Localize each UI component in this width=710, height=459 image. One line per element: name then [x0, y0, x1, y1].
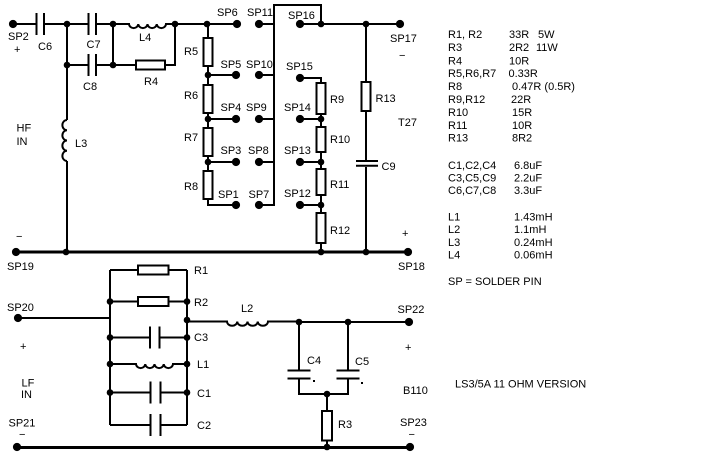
junction C1 right — [184, 389, 191, 396]
svg-text:R8: R8 — [184, 181, 198, 193]
svg-text:L3: L3 — [448, 237, 460, 249]
svg-text:C5: C5 — [355, 356, 369, 368]
svg-text:+: + — [405, 342, 411, 354]
svg-text:IN: IN — [21, 389, 32, 401]
junction C5 top — [345, 319, 352, 326]
terminal SP3 — [232, 158, 240, 166]
wire R2 row left — [110, 301, 138, 303]
label C4 period — [313, 380, 315, 382]
wire tap SP3 — [208, 161, 236, 163]
svg-text:C7: C7 — [87, 39, 101, 51]
svg-text:T27: T27 — [398, 117, 417, 129]
svg-text:SP2: SP2 — [8, 31, 29, 43]
wire SP20 to LF network — [18, 317, 110, 319]
junction C3 left — [107, 334, 114, 341]
svg-text:C6,C7,C8: C6,C7,C8 — [448, 185, 496, 197]
svg-text:LF: LF — [22, 378, 35, 390]
svg-text:5W: 5W — [538, 29, 555, 41]
svg-text:2.2uF: 2.2uF — [514, 173, 542, 185]
junction R9/R10 — [318, 116, 325, 123]
svg-text:R11: R11 — [330, 179, 349, 191]
resistor R9 — [317, 83, 326, 114]
svg-text:SP18: SP18 — [398, 261, 425, 273]
svg-text:SP11: SP11 — [247, 7, 273, 19]
svg-text:R10: R10 — [330, 134, 350, 146]
junction L1 left — [107, 361, 114, 368]
junction R10/R11 — [318, 159, 325, 166]
wire R9 to SP14 junction — [320, 114, 322, 127]
wire R7 to SP3 junction — [207, 156, 209, 171]
wire C2 row left — [110, 424, 151, 426]
svg-text:33R: 33R — [509, 29, 529, 41]
wire R1 row right — [169, 269, 188, 271]
svg-text:22R: 22R — [511, 94, 531, 106]
inductor L3 — [62, 120, 67, 161]
capacitor C2 — [151, 414, 161, 436]
svg-text:15R: 15R — [512, 107, 532, 119]
svg-text:C1,C2,C4: C1,C2,C4 — [448, 160, 496, 172]
svg-text:L2: L2 — [448, 224, 460, 236]
wire R13 top stub — [365, 24, 367, 82]
svg-text:SP23: SP23 — [400, 417, 427, 429]
svg-text:R12: R12 — [330, 225, 350, 237]
resistor R6 — [204, 85, 213, 113]
junction R12 bus — [318, 249, 325, 256]
capacitor C3 — [150, 327, 160, 349]
wire R10 to SP13 junction — [320, 152, 322, 169]
svg-text:SP5: SP5 — [221, 59, 242, 71]
svg-text:C3: C3 — [194, 332, 208, 344]
terminal SP12 — [296, 201, 304, 209]
svg-text:R5,R6,R7: R5,R6,R7 — [448, 68, 496, 80]
svg-text:1.1mH: 1.1mH — [514, 224, 546, 236]
wire C5 top stub — [347, 322, 349, 370]
wire SP9 stub — [259, 118, 274, 120]
svg-text:B110: B110 — [403, 385, 428, 397]
svg-text:2R2: 2R2 — [509, 42, 529, 54]
svg-text:R13: R13 — [376, 93, 396, 105]
svg-text:SP19: SP19 — [7, 261, 34, 273]
svg-text:R10: R10 — [448, 107, 468, 119]
svg-text:C2: C2 — [197, 420, 211, 432]
svg-text:SP21: SP21 — [9, 418, 36, 430]
wire SP2 to C6 — [13, 23, 36, 25]
capacitor C6 — [37, 13, 45, 35]
svg-text:SP6: SP6 — [217, 7, 238, 19]
wire R13 to C9 — [365, 111, 367, 160]
capacitor C4 — [288, 371, 311, 379]
svg-text:HF: HF — [17, 123, 32, 135]
svg-text:3.3uF: 3.3uF — [514, 185, 542, 197]
svg-text:R9,R12: R9,R12 — [448, 94, 485, 106]
svg-text:SP20: SP20 — [7, 302, 34, 314]
svg-text:R8: R8 — [448, 81, 462, 93]
wire tap SP4 — [208, 118, 236, 120]
wire C9 to bus — [365, 167, 367, 252]
wire C8 to node B2 — [96, 64, 113, 66]
wire C5 bottom to node — [327, 379, 348, 395]
wire node A2 to L3 — [66, 65, 68, 120]
terminal SP19 — [12, 248, 20, 256]
terminal SP22 — [405, 318, 413, 326]
node D junction R5 top — [204, 21, 211, 28]
resistor R2 — [138, 297, 169, 306]
svg-text:C9: C9 — [382, 161, 396, 173]
wire L3 to bottom bus — [66, 161, 68, 252]
resistor R3 — [322, 411, 332, 441]
svg-text:R1: R1 — [194, 265, 208, 277]
wire HF bottom bus — [16, 251, 408, 254]
wire middle bus vertical with top bend — [259, 5, 321, 205]
svg-text:SP = SOLDER PIN: SP = SOLDER PIN — [448, 276, 542, 288]
terminal SP7 — [255, 201, 263, 209]
junction C1 left — [107, 389, 114, 396]
svg-text:R4: R4 — [448, 56, 462, 68]
wire C4 bottom to node — [299, 379, 327, 395]
wire junction to SP17 — [321, 23, 400, 25]
wire node A2 to C8 — [67, 64, 88, 66]
svg-text:R1, R2: R1, R2 — [448, 29, 482, 41]
node B2 — [110, 62, 117, 69]
svg-text:R13: R13 — [448, 133, 468, 145]
svg-text:SP10: SP10 — [246, 59, 273, 71]
svg-text:−: − — [399, 50, 405, 62]
svg-text:L4: L4 — [448, 250, 460, 262]
node A2 — [64, 62, 71, 69]
svg-text:0.47R (0.5R): 0.47R (0.5R) — [512, 81, 575, 93]
junction R3 bus — [324, 444, 331, 451]
svg-text:0.24mH: 0.24mH — [514, 237, 553, 249]
svg-text:0.33R: 0.33R — [509, 68, 538, 80]
wire C3 row left — [110, 337, 150, 339]
svg-text:+: + — [402, 228, 408, 240]
terminal SP9 — [255, 115, 263, 123]
node A — [64, 21, 71, 28]
terminal SP15 — [296, 74, 304, 82]
svg-text:IN: IN — [17, 136, 28, 148]
terminal SP5 — [232, 71, 240, 79]
junction L1 right — [184, 361, 191, 368]
svg-text:R2: R2 — [194, 297, 208, 309]
terminal SP21 — [13, 443, 21, 451]
junction L3 bus — [63, 249, 70, 256]
wire SP10 stub — [259, 74, 274, 76]
label parts list capacitors — [448, 160, 542, 197]
wire node A to C7 — [67, 23, 88, 25]
svg-text:SP1: SP1 — [218, 189, 239, 201]
junction C9 bus — [363, 249, 370, 256]
wire R6 to SP4 junction — [207, 113, 209, 128]
svg-text:R5: R5 — [184, 46, 198, 58]
svg-text:SP12: SP12 — [284, 188, 311, 200]
resistor R13 — [362, 82, 371, 111]
wire SP11 stub — [259, 23, 274, 25]
wire R12 to bus — [320, 243, 322, 252]
svg-text:SP3: SP3 — [221, 145, 242, 157]
wire node C to SP6 — [175, 23, 237, 25]
svg-text:SP9: SP9 — [246, 102, 267, 114]
wire R5 to SP5 junction — [207, 66, 209, 85]
junction R11/R12 — [318, 202, 325, 209]
capacitor C8 — [89, 54, 97, 76]
wire tap SP12 — [300, 204, 321, 206]
wire C1 row left — [110, 392, 151, 394]
capacitor C1 — [151, 382, 161, 404]
wire C1 row right — [161, 392, 188, 394]
wire C6 to node A — [44, 23, 67, 25]
svg-text:R9: R9 — [330, 94, 344, 106]
terminal SP23 — [406, 443, 414, 451]
svg-text:SP4: SP4 — [221, 102, 242, 114]
resistor R8 — [204, 171, 213, 199]
wire tap SP5 — [208, 74, 236, 76]
junction R13 top — [363, 21, 370, 28]
resistor R5 — [204, 38, 213, 66]
svg-text:0.06mH: 0.06mH — [514, 250, 553, 262]
wire node B2 to R4 — [113, 64, 136, 66]
svg-text:R4: R4 — [144, 76, 158, 88]
svg-text:SP16: SP16 — [288, 10, 315, 22]
resistor R1 — [138, 266, 169, 275]
wire LF network right bus — [186, 270, 188, 425]
svg-text:10R: 10R — [512, 120, 532, 132]
wire R1 row left — [110, 269, 138, 271]
resistor R4 — [136, 61, 165, 70]
svg-text:SP22: SP22 — [398, 304, 425, 316]
resistor R7 — [204, 128, 213, 156]
svg-text:10R: 10R — [509, 56, 529, 68]
terminal SP6 — [233, 20, 241, 28]
svg-text:SP14: SP14 — [284, 102, 311, 114]
terminal SP18 — [404, 248, 412, 256]
wire R8 to SP1 — [208, 199, 236, 205]
wire SP15 to R9 — [300, 78, 321, 83]
wire L2 to SP22 — [299, 321, 409, 323]
terminal SP2 — [9, 20, 17, 28]
terminal SP20 — [14, 314, 22, 322]
junction R2 right — [184, 298, 191, 305]
svg-text:L4: L4 — [139, 32, 151, 44]
junction R2 left — [107, 298, 114, 305]
terminal SP17 — [396, 20, 404, 28]
resistor R12 — [317, 213, 326, 243]
resistor R11 — [317, 169, 326, 195]
terminal SP14 — [296, 115, 304, 123]
svg-text:SP7: SP7 — [249, 189, 270, 201]
wire R4 to node C — [165, 24, 175, 65]
svg-text:SP17: SP17 — [390, 33, 417, 45]
svg-text:6.8uF: 6.8uF — [514, 160, 542, 172]
svg-text:R11: R11 — [448, 120, 467, 132]
wire C7 to node B — [96, 23, 113, 25]
junction R5/R6 — [205, 72, 212, 79]
node B — [110, 21, 117, 28]
terminal SP8 — [255, 158, 263, 166]
svg-text:C6: C6 — [38, 41, 52, 53]
wire R2 row right — [169, 301, 188, 303]
wire SP8 stub — [259, 161, 274, 163]
wire tap SP13 — [300, 161, 321, 163]
label parts list resistors — [448, 29, 575, 145]
terminal SP16 — [296, 20, 304, 28]
svg-text:+: + — [20, 341, 26, 353]
label parts list inductors — [448, 212, 553, 262]
svg-text:11W: 11W — [536, 42, 558, 54]
wire LF bottom bus — [17, 446, 410, 449]
svg-text:R6: R6 — [184, 90, 198, 102]
inductor L1 — [110, 364, 187, 368]
capacitor C9 — [356, 161, 378, 166]
svg-text:+: + — [14, 44, 20, 56]
svg-text:LS3/5A 11 OHM VERSION: LS3/5A 11 OHM VERSION — [455, 379, 586, 391]
terminal SP11 — [255, 20, 263, 28]
resistor R10 — [317, 127, 326, 152]
wire R3 to bus — [326, 441, 328, 448]
svg-text:C1: C1 — [197, 388, 211, 400]
junction top right — [318, 21, 325, 28]
terminal SP10 — [255, 71, 263, 79]
wire SP16 to junction — [300, 23, 321, 25]
inductor L4 — [113, 24, 175, 28]
svg-text:C8: C8 — [83, 81, 97, 93]
svg-text:L1: L1 — [197, 359, 209, 371]
svg-text:SP15: SP15 — [286, 61, 313, 73]
svg-text:−: − — [409, 429, 415, 441]
terminal SP13 — [296, 158, 304, 166]
wire node A down to node A2 — [66, 24, 68, 65]
svg-text:R3: R3 — [448, 42, 462, 54]
junction R7/R8 — [205, 159, 212, 166]
wire tap SP14 — [300, 118, 321, 120]
junction C4 top — [296, 319, 303, 326]
svg-text:L2: L2 — [241, 303, 253, 315]
wire node to R3 — [326, 394, 328, 411]
wire R5 top stub — [207, 24, 209, 38]
svg-text:C4: C4 — [307, 355, 321, 367]
inductor L2 — [187, 322, 299, 326]
terminal SP1 — [232, 201, 240, 209]
wire node B to node B2 — [112, 24, 114, 65]
svg-text:R3: R3 — [338, 419, 352, 431]
svg-text:SP13: SP13 — [284, 145, 311, 157]
svg-text:1.43mH: 1.43mH — [514, 212, 553, 224]
wire LF network left bus — [109, 270, 111, 425]
capacitor C5 — [337, 371, 360, 379]
junction L2 takeoff — [184, 317, 191, 324]
junction C4 C5 R3 — [324, 391, 331, 398]
svg-text:−: − — [19, 429, 25, 441]
wire C3 row right — [160, 337, 188, 339]
svg-text:8R2: 8R2 — [512, 133, 532, 145]
svg-text:SP8: SP8 — [248, 145, 269, 157]
svg-text:C3,C5,C9: C3,C5,C9 — [448, 173, 496, 185]
wire C2 row right — [161, 424, 188, 426]
capacitor C7 — [89, 13, 97, 35]
node C — [172, 21, 179, 28]
wire C4 top stub — [298, 322, 300, 370]
terminal SP4 — [232, 115, 240, 123]
svg-text:L1: L1 — [448, 212, 460, 224]
junction C3 right — [184, 334, 191, 341]
svg-text:−: − — [16, 231, 22, 243]
svg-text:R7: R7 — [184, 132, 198, 144]
svg-text:L3: L3 — [75, 138, 87, 150]
junction R6/R7 — [205, 116, 212, 123]
wire R11 to SP12 junction — [320, 195, 322, 213]
label C5 period — [361, 382, 363, 384]
